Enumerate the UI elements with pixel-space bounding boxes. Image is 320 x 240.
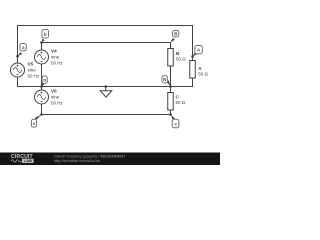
svg-text:sine: sine	[51, 55, 60, 60]
svg-text:b: b	[44, 32, 47, 37]
svg-text:Gareth Greaney (garyphi) / ASS: Gareth Greaney (garyphi) / ASSIGNMENT	[54, 154, 126, 158]
svg-text:sine: sine	[51, 95, 60, 100]
svg-text:LAB: LAB	[24, 158, 32, 163]
svg-text:http://circuitlab.com/c5u1ub: http://circuitlab.com/c5u1ub	[54, 159, 100, 163]
svg-text:50 Hz: 50 Hz	[28, 74, 41, 79]
svg-text:50 Ω: 50 Ω	[198, 72, 208, 77]
svg-text:V6: V6	[51, 89, 57, 94]
svg-text:50 Ω: 50 Ω	[176, 57, 186, 62]
svg-text:50 Ω: 50 Ω	[176, 100, 186, 105]
svg-text:50 Hz: 50 Hz	[51, 101, 64, 106]
svg-text:50 Hz: 50 Hz	[51, 61, 64, 66]
svg-text:sine: sine	[28, 68, 37, 73]
svg-text:N: N	[163, 77, 166, 82]
svg-text:V4: V4	[51, 49, 57, 54]
svg-text:V5: V5	[28, 62, 34, 67]
svg-text:n: n	[43, 78, 46, 83]
